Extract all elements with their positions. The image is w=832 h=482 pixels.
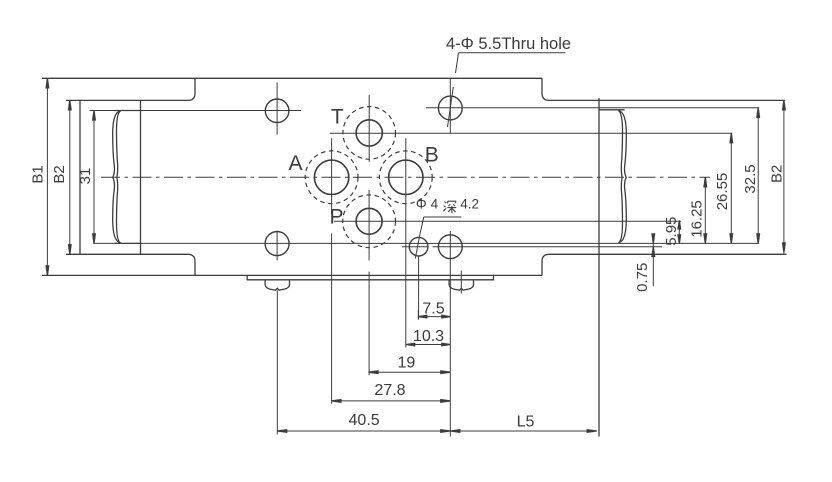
right bottom step corner: [542, 254, 787, 275]
port T circle: [356, 120, 382, 146]
svg-text:B1: B1: [30, 165, 47, 183]
P port line (5.95 ext): [334, 220, 681, 222]
svg-text:4-Φ 5.5Thru hole: 4-Φ 5.5Thru hole: [446, 35, 571, 53]
mounting hole top-left: [265, 99, 289, 123]
mounting hole top-right: [438, 96, 462, 120]
left cap top edge: [114, 110, 140, 112]
svg-text:P: P: [329, 205, 343, 228]
svg-text:Φ: Φ: [416, 197, 427, 212]
svg-text:L5: L5: [517, 414, 535, 431]
top-right hole line (32.5 ext): [426, 107, 759, 109]
dimension 7.5: [418, 316, 450, 318]
left bottom step corner: [66, 254, 195, 275]
svg-text:4.2: 4.2: [460, 197, 479, 212]
left body joint: [140, 100, 142, 254]
dimension 5.95: [678, 221, 680, 244]
svg-text:0.75: 0.75: [634, 263, 651, 292]
main centerline: [101, 176, 710, 178]
dimension 26.55: [730, 133, 732, 243]
bolt left extension (40.5 ext): [276, 290, 278, 434]
svg-text:A: A: [288, 152, 302, 175]
dimension B1: [46, 78, 48, 275]
right top step corner: [542, 78, 785, 100]
glyph shen (depth) hand-drawn: [445, 202, 447, 204]
dimension 40.5: [277, 430, 450, 432]
T port line (26.55 ext): [330, 132, 733, 134]
svg-text:T: T: [331, 106, 344, 129]
dimension 32.5: [757, 108, 759, 244]
svg-text:40.5: 40.5: [349, 412, 380, 429]
svg-text:B2: B2: [51, 165, 68, 183]
mounting hole bottom-right: [438, 235, 462, 259]
svg-text:10.3: 10.3: [413, 328, 444, 345]
svg-text:19: 19: [398, 354, 416, 371]
bolt right centerline: [460, 271, 462, 294]
svg-text:16.25: 16.25: [689, 200, 706, 238]
left cap crescent: [113, 111, 121, 243]
subplate: [247, 275, 493, 279]
svg-text:26.55: 26.55: [714, 173, 731, 211]
left top step corner: [66, 78, 195, 100]
dimension B2 right: [783, 100, 785, 254]
leader to pilot hole: [415, 217, 461, 259]
dimension B2 left: [69, 100, 71, 254]
svg-text:B2: B2: [768, 165, 785, 183]
lower pilot holes centerline (0.75 ext): [402, 246, 662, 248]
svg-text:27.8: 27.8: [374, 382, 405, 399]
left cap bottom edge: [114, 242, 140, 244]
port A circle: [314, 160, 348, 194]
bottom holes line (31 / right dims baseline): [93, 242, 759, 244]
svg-text:31: 31: [77, 168, 94, 185]
port P circle: [356, 208, 382, 234]
dimension 0.75: [652, 236, 654, 286]
dimension 31: [93, 111, 95, 244]
right cap crescent: [619, 111, 627, 243]
svg-text:7.5: 7.5: [422, 300, 444, 317]
svg-text:5.95: 5.95: [663, 217, 680, 246]
dimension 19: [369, 371, 451, 373]
port B circle: [389, 160, 423, 194]
svg-text:4: 4: [431, 197, 439, 212]
left end edge: [79, 100, 81, 254]
dimension L5: [450, 430, 596, 432]
dimension 10.3: [406, 344, 450, 346]
valve body bottom edge: [42, 274, 542, 276]
mounting bolt left: [265, 280, 289, 290]
mounting hole bottom-left: [265, 232, 289, 256]
right cap top edge: [599, 109, 625, 111]
pilot hole dia4: [409, 237, 428, 256]
dim ext line 7.5: [417, 310, 419, 320]
svg-text:32.5: 32.5: [742, 164, 759, 193]
dimension 16.25: [704, 177, 706, 243]
valve body top edge: [42, 77, 542, 79]
top holes line left (31 ext): [90, 110, 302, 112]
right body joint / L5 extension: [598, 98, 600, 437]
mounting bolt right: [449, 280, 473, 290]
dimension 27.8: [331, 400, 450, 402]
svg-text:B: B: [425, 144, 439, 167]
leader to top-right hole: [448, 53, 459, 127]
